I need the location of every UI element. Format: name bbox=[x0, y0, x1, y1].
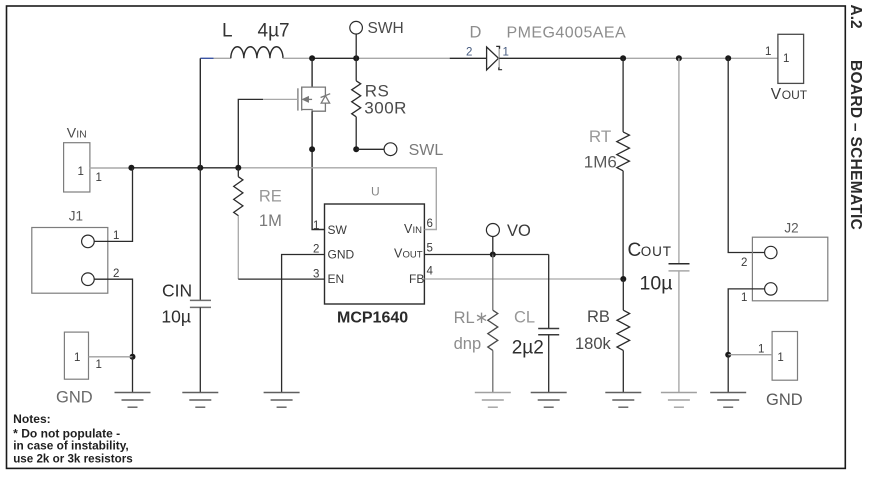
sidebar title A.2 bbox=[847, 5, 864, 29]
svg-text:1: 1 bbox=[741, 292, 747, 304]
svg-text:GND: GND bbox=[766, 391, 803, 409]
svg-text:10µ: 10µ bbox=[640, 273, 673, 295]
J1 pin 1 wire bbox=[94, 168, 132, 242]
capacitor CL bbox=[512, 255, 560, 393]
node: RT junction bbox=[620, 55, 626, 61]
terminal GND box left bbox=[64, 332, 132, 379]
svg-text:SW: SW bbox=[328, 223, 348, 237]
node: COUT junction bbox=[676, 55, 682, 61]
wire: RE bottom to EN pin bbox=[238, 216, 324, 279]
svg-text:A.2: A.2 bbox=[847, 5, 864, 29]
U pin 1 SW bbox=[313, 220, 348, 237]
diode D pin number 2 bbox=[466, 47, 472, 59]
svg-text:1: 1 bbox=[96, 359, 102, 371]
svg-text:D: D bbox=[470, 24, 482, 42]
wire: Q1 source down to pin SW bbox=[312, 111, 324, 229]
svg-text:1M6: 1M6 bbox=[584, 153, 617, 172]
node: GND junction right bbox=[725, 352, 731, 358]
wire: inductor right lead (gray) bbox=[283, 57, 312, 59]
svg-text:BOARD – SCHEMATIC: BOARD – SCHEMATIC bbox=[847, 60, 864, 230]
wire: VOUT net down to J2 pin 2 bbox=[728, 58, 764, 252]
wire: right ground column bbox=[727, 355, 729, 393]
wire: FB net (gray) bbox=[425, 278, 624, 280]
svg-text:5: 5 bbox=[427, 243, 433, 255]
wire: VOUT net (gray) bbox=[623, 57, 778, 59]
U pin 4 FB bbox=[409, 266, 434, 287]
svg-text:V: V bbox=[67, 125, 77, 141]
label MCP1640 bbox=[337, 310, 408, 327]
U pin 6 VIN bbox=[404, 218, 433, 236]
ground symbol (RB) bbox=[605, 393, 641, 408]
U pin 2 GND bbox=[313, 244, 355, 262]
svg-text:1M: 1M bbox=[259, 212, 282, 230]
svg-text:RE: RE bbox=[259, 188, 282, 206]
wire: inductor left lead bbox=[214, 57, 231, 59]
node: CIN junction on VIN net bbox=[197, 165, 203, 171]
ground symbol (J2/GND) bbox=[710, 393, 746, 408]
node: SW junction at MOSFET drain bbox=[309, 55, 315, 61]
svg-text:1: 1 bbox=[783, 53, 789, 65]
svg-text:300R: 300R bbox=[364, 99, 407, 118]
terminal SWH bbox=[350, 20, 404, 58]
svg-text:2: 2 bbox=[313, 244, 319, 256]
U pin 5 VOUT bbox=[394, 243, 433, 261]
label VIN bbox=[67, 125, 87, 141]
label GND right bbox=[766, 391, 803, 409]
svg-text:2: 2 bbox=[741, 257, 747, 269]
svg-text:IN: IN bbox=[76, 129, 87, 141]
svg-text:2: 2 bbox=[466, 47, 472, 59]
svg-text:C: C bbox=[628, 240, 642, 261]
capacitor CIN bbox=[161, 168, 211, 393]
resistor RE bbox=[234, 168, 282, 230]
ground symbol (J1/GND) bbox=[115, 393, 151, 408]
svg-text:1: 1 bbox=[777, 352, 783, 364]
resistor RT bbox=[584, 58, 630, 279]
svg-text:J1: J1 bbox=[69, 208, 83, 223]
terminal GND box right bbox=[728, 332, 797, 381]
label D PMEG4005AEA bbox=[470, 24, 627, 42]
svg-text:U: U bbox=[371, 185, 380, 199]
svg-text:IN: IN bbox=[413, 225, 423, 236]
ground symbol (U GND) bbox=[264, 393, 300, 408]
wire: VIN net up to inductor bbox=[199, 58, 201, 168]
svg-text:MCP1640: MCP1640 bbox=[337, 310, 408, 327]
label VOUT bbox=[771, 86, 808, 103]
resistor RB bbox=[575, 279, 630, 393]
svg-text:1: 1 bbox=[74, 352, 80, 364]
node: J1 junction on VIN net bbox=[128, 165, 134, 171]
svg-text:J2: J2 bbox=[784, 221, 798, 236]
svg-text:RL∗: RL∗ bbox=[454, 309, 489, 327]
terminal VOUT box bbox=[765, 34, 804, 83]
node: J2 junction bbox=[725, 55, 731, 61]
svg-text:CIN: CIN bbox=[162, 281, 192, 301]
node: RE junction on VIN net bbox=[235, 165, 241, 171]
J1 pin 2 wire bbox=[94, 268, 132, 357]
svg-text:SWL: SWL bbox=[409, 142, 444, 159]
wire: SW node segment bbox=[312, 57, 356, 59]
svg-text:OUT: OUT bbox=[782, 88, 808, 102]
svg-text:GND: GND bbox=[56, 389, 93, 407]
diode D anode lead bbox=[450, 57, 487, 59]
svg-text:180k: 180k bbox=[575, 335, 612, 353]
wire: U VOUT pin net bbox=[425, 254, 549, 256]
wire: left ground column bbox=[132, 357, 134, 393]
svg-text:L: L bbox=[222, 21, 233, 42]
svg-text:GND: GND bbox=[328, 248, 355, 262]
node: source/SWL junction bbox=[309, 146, 315, 152]
svg-text:EN: EN bbox=[328, 272, 345, 286]
wire: gate of Q1 to RE node bbox=[238, 99, 298, 167]
wire: VIN box to junction (gray) bbox=[89, 167, 132, 169]
wire: SW node to diode (gray) bbox=[356, 57, 450, 59]
J2 pin 2 label bbox=[741, 257, 747, 269]
svg-text:1: 1 bbox=[96, 172, 102, 184]
wire: U GND pin to ground bbox=[282, 255, 325, 393]
svg-text:1: 1 bbox=[765, 46, 771, 58]
svg-text:2: 2 bbox=[113, 268, 119, 280]
node: GND junction left bbox=[130, 354, 136, 360]
wire: VIN net gray segment to U pin6 bbox=[238, 168, 436, 230]
terminal VIN box bbox=[64, 143, 102, 192]
svg-text:1: 1 bbox=[758, 344, 764, 356]
svg-text:1: 1 bbox=[78, 166, 84, 178]
svg-text:OUT: OUT bbox=[641, 244, 672, 259]
svg-text:1: 1 bbox=[113, 230, 119, 242]
ground symbol (CIN) bbox=[182, 393, 218, 408]
wire: diode cathode to RT node bbox=[499, 57, 623, 59]
svg-text:RT: RT bbox=[589, 127, 611, 146]
svg-text:SWH: SWH bbox=[368, 20, 404, 37]
svg-text:VO: VO bbox=[507, 222, 531, 240]
J2 pin 1 wire bbox=[728, 289, 764, 355]
svg-text:4: 4 bbox=[427, 266, 434, 278]
svg-text:FB: FB bbox=[409, 272, 424, 286]
notes text bbox=[13, 412, 133, 466]
ground symbol (RL, gray) bbox=[475, 393, 511, 408]
value label L 4u7 bbox=[222, 21, 290, 42]
svg-text:dnp: dnp bbox=[454, 335, 482, 353]
wire: VIN net black segment bbox=[131, 167, 238, 169]
resistor RL* (do not populate, gray) bbox=[454, 255, 498, 393]
svg-text:OUT: OUT bbox=[403, 250, 423, 261]
U pin 3 EN bbox=[313, 269, 344, 287]
U box (MCP1640) bbox=[325, 185, 425, 305]
sidebar title BOARD - SCHEMATIC bbox=[847, 60, 864, 230]
node: VO junction bbox=[490, 252, 496, 258]
svg-text:RB: RB bbox=[587, 308, 610, 326]
svg-text:V: V bbox=[771, 86, 782, 103]
node: SWH junction bbox=[353, 55, 359, 61]
ground symbol (COUT, gray) bbox=[661, 393, 697, 408]
transistor Q1 (N-MOSFET with body diode) bbox=[298, 87, 330, 111]
svg-text:use 2k or 3k resistors: use 2k or 3k resistors bbox=[13, 452, 133, 466]
svg-text:PMEG4005AEA: PMEG4005AEA bbox=[507, 25, 627, 42]
svg-text:in case of instability,: in case of instability, bbox=[13, 439, 129, 453]
inductor L bbox=[231, 47, 283, 59]
svg-text:Notes:: Notes: bbox=[13, 412, 51, 426]
ground symbol (CL) bbox=[531, 393, 567, 408]
connector J1 bbox=[32, 208, 108, 293]
wire: inductor input blue stub bbox=[200, 57, 213, 59]
connector J2 bbox=[752, 221, 827, 301]
diode D (Schottky PMEG4005AEA) bbox=[487, 46, 503, 70]
capacitor COUT (gray column) bbox=[628, 58, 690, 392]
svg-text:10µ: 10µ bbox=[161, 307, 191, 327]
diode D pin number 1 bbox=[503, 47, 509, 59]
terminal VO bbox=[486, 222, 531, 255]
svg-text:CL: CL bbox=[514, 309, 535, 327]
svg-text:1: 1 bbox=[503, 47, 509, 59]
node: SWL junction at RS bottom bbox=[353, 146, 359, 152]
svg-text:2µ2: 2µ2 bbox=[512, 338, 544, 359]
node: FB junction bbox=[620, 276, 626, 282]
resistor RS bbox=[352, 58, 407, 149]
transistor Q1 drain wire bbox=[311, 58, 313, 87]
svg-text:4µ7: 4µ7 bbox=[258, 21, 290, 42]
svg-text:6: 6 bbox=[427, 218, 433, 230]
terminal SWL bbox=[356, 142, 443, 159]
label GND left bbox=[56, 389, 93, 407]
svg-text:1: 1 bbox=[313, 220, 319, 232]
